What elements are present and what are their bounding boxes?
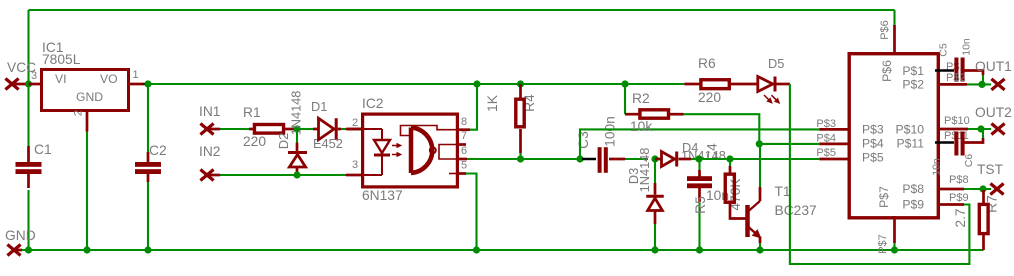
junction [473, 80, 480, 87]
svg-text:C1: C1 [34, 142, 52, 157]
pin 6 IC2 [457, 158, 467, 161]
svg-text:OUT2: OUT2 [975, 105, 1012, 120]
svg-text:C6: C6 [963, 154, 975, 168]
wire [790, 84, 970, 264]
svg-text:C5: C5 [938, 43, 950, 57]
svg-text:2: 2 [352, 117, 358, 129]
svg-text:P$2: P$2 [902, 78, 924, 92]
svg-text:1: 1 [133, 69, 139, 81]
wire [467, 158, 521, 160]
svg-text:D1: D1 [311, 99, 327, 114]
junction [517, 80, 524, 87]
junction [293, 171, 300, 178]
svg-text:7: 7 [461, 130, 467, 142]
junction [25, 80, 32, 87]
wire [148, 83, 684, 85]
wire [982, 75, 984, 84]
svg-text:TST: TST [977, 162, 1004, 177]
svg-text:P$3: P$3 [816, 118, 836, 130]
svg-text:P$10: P$10 [944, 115, 970, 127]
junction [977, 125, 984, 132]
pin 3 IC1 [29, 83, 41, 86]
voltage regulator IC1 [42, 70, 129, 111]
svg-text:3: 3 [31, 70, 37, 82]
wire [521, 158, 581, 160]
junction [651, 246, 658, 253]
svg-text:R1: R1 [243, 105, 261, 120]
pin P$3 [819, 128, 848, 131]
svg-text:P$7: P$7 [877, 234, 889, 254]
pin 5 IC2 [457, 172, 466, 175]
svg-text:P$6: P$6 [880, 60, 894, 82]
wire [86, 132, 88, 251]
svg-text:P$4: P$4 [816, 133, 836, 145]
svg-text:P$5: P$5 [862, 151, 884, 165]
wire [147, 84, 149, 152]
wire [759, 243, 761, 250]
wire [982, 129, 984, 138]
svg-text:100n: 100n [603, 116, 618, 147]
svg-text:OUT1: OUT1 [975, 59, 1012, 74]
junction [726, 155, 733, 162]
svg-text:C2: C2 [149, 143, 167, 158]
junction [25, 246, 32, 253]
svg-text:P$3: P$3 [862, 123, 884, 137]
svg-text:10n: 10n [961, 38, 973, 56]
wire [147, 182, 149, 250]
pin 3 IC2 [346, 174, 361, 177]
pin P$6 [893, 10, 895, 25]
svg-text:5: 5 [461, 160, 467, 172]
svg-text:GND: GND [76, 90, 103, 104]
svg-text:R2: R2 [632, 91, 650, 106]
svg-text:P$9: P$9 [949, 192, 969, 204]
wire [29, 9, 895, 11]
wire [466, 174, 477, 251]
junction [756, 140, 763, 147]
svg-text:1K: 1K [485, 94, 500, 112]
IC U2 connector [849, 54, 938, 218]
svg-text:8: 8 [461, 116, 467, 128]
bubble IC2 internal [430, 147, 436, 153]
wire [220, 174, 346, 176]
svg-text:BC237: BC237 [775, 203, 817, 218]
svg-text:7805L: 7805L [42, 52, 81, 67]
svg-text:6N137: 6N137 [362, 188, 403, 203]
svg-text:R6: R6 [698, 56, 716, 71]
junction [576, 155, 583, 162]
wire [684, 114, 760, 144]
wire [144, 83, 149, 86]
svg-text:P$8: P$8 [902, 182, 924, 196]
arrow D5 [764, 95, 772, 103]
svg-text:P$5: P$5 [816, 147, 836, 159]
junction [473, 246, 480, 253]
wire [519, 153, 521, 159]
junction [144, 80, 151, 87]
wire [964, 188, 991, 190]
svg-text:2.7: 2.7 [953, 208, 968, 227]
wire [580, 129, 819, 159]
svg-text:1N4148: 1N4148 [637, 148, 652, 193]
junction [293, 125, 300, 132]
svg-text:P$7: P$7 [877, 186, 891, 208]
junction [695, 155, 702, 162]
svg-text:220: 220 [243, 134, 266, 149]
svg-text:P$4: P$4 [862, 137, 884, 151]
svg-text:P$11: P$11 [896, 137, 924, 151]
pin 8 IC2 [457, 128, 470, 131]
wire [759, 144, 761, 187]
svg-text:IC2: IC2 [362, 96, 383, 111]
junction [891, 246, 898, 253]
junction [83, 246, 90, 253]
pin P$5 [819, 158, 848, 161]
arrow D5 [772, 95, 780, 103]
wire [220, 128, 249, 130]
svg-text:P$1: P$1 [902, 64, 924, 78]
wire [699, 158, 730, 160]
pin 1 IC1 [130, 83, 144, 86]
svg-text:220: 220 [698, 90, 721, 105]
junction [696, 246, 703, 253]
svg-text:VI: VI [55, 72, 67, 86]
wire [967, 83, 991, 85]
svg-text:GND: GND [5, 228, 36, 243]
svg-text:10k: 10k [630, 119, 652, 134]
arrow IC2 internal [392, 144, 401, 147]
optocoupler IC2 [363, 114, 458, 187]
junction [651, 155, 658, 162]
svg-text:P$6: P$6 [879, 20, 891, 40]
svg-text:IN1: IN1 [199, 104, 220, 119]
photodiode IC2 internal [362, 128, 382, 130]
wire [730, 158, 819, 160]
svg-text:T1: T1 [775, 184, 791, 199]
svg-text:IN2: IN2 [199, 144, 220, 159]
svg-text:2: 2 [73, 110, 85, 116]
svg-text:P$2: P$2 [946, 72, 966, 84]
junction [979, 185, 986, 192]
svg-text:VO: VO [100, 72, 118, 86]
wire [759, 143, 819, 145]
pin 7 IC2 [457, 143, 466, 146]
wire [27, 10, 29, 146]
svg-text:3: 3 [352, 159, 358, 171]
wire [698, 202, 700, 250]
svg-text:C3: C3 [576, 131, 591, 149]
junction [756, 246, 763, 253]
gate IC2 internal [409, 128, 414, 174]
wire [625, 158, 648, 160]
wire [470, 84, 477, 130]
svg-text:6: 6 [461, 145, 467, 157]
wire [968, 128, 991, 130]
pin P$4 [819, 143, 848, 146]
pin 2 IC2 [346, 128, 361, 131]
wire [341, 128, 348, 130]
svg-text:D5: D5 [768, 56, 784, 71]
pin P$7 [893, 216, 896, 243]
svg-text:P$9: P$9 [902, 198, 924, 212]
wire [691, 158, 699, 160]
svg-text:P$10: P$10 [896, 123, 925, 137]
pin 2 IC1 [86, 112, 89, 132]
junction [517, 155, 524, 162]
wire [654, 224, 656, 250]
junction [621, 80, 628, 87]
svg-text:P$8: P$8 [949, 174, 969, 186]
wire [20, 249, 984, 251]
junction [978, 81, 985, 88]
svg-text:10n: 10n [931, 158, 943, 176]
wire [27, 190, 29, 250]
arrow IC2 internal [392, 153, 401, 156]
junction [144, 246, 151, 253]
svg-text:R5: R5 [693, 196, 708, 214]
gate wiring IC2 internal [401, 126, 457, 136]
